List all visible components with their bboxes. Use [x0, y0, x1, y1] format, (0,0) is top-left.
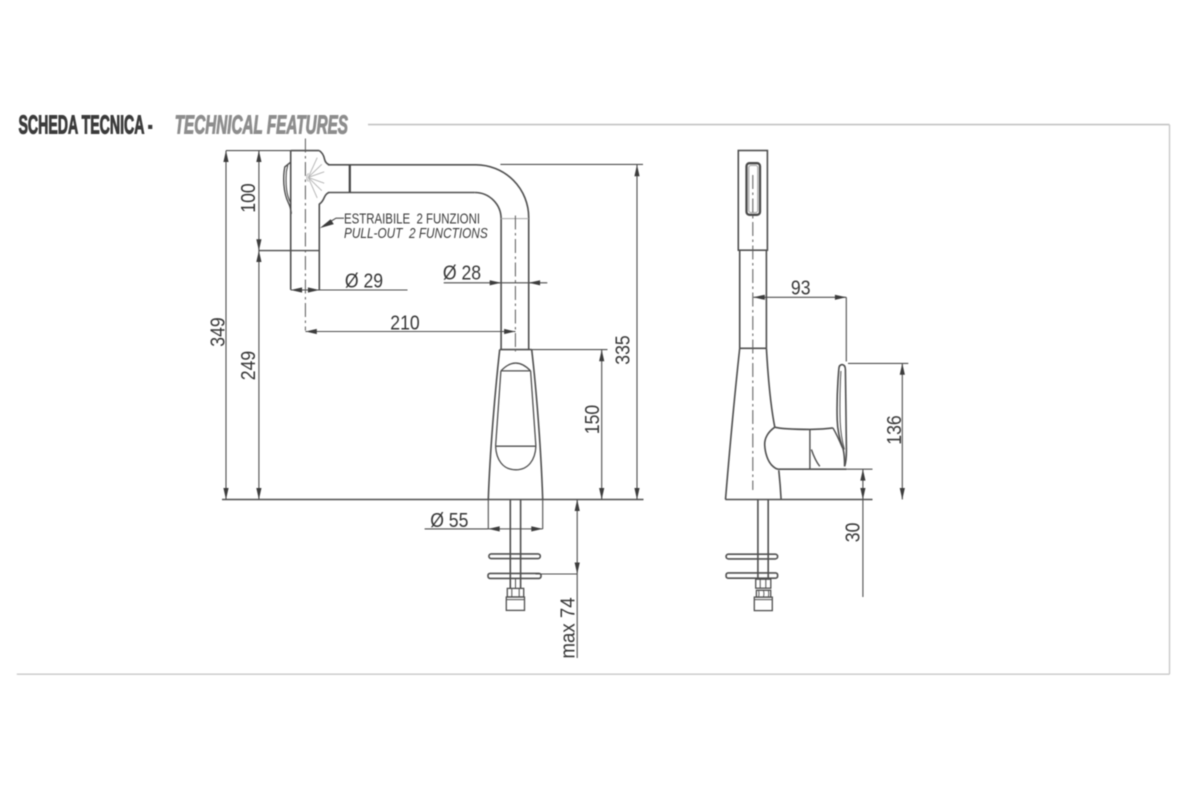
- svg-text:210: 210: [390, 312, 419, 335]
- spray head outline (left view): [291, 150, 320, 152]
- arrows 30: [860, 469, 865, 480]
- dim 30 line: [862, 469, 864, 597]
- dim 210 line: [305, 331, 515, 333]
- ext line head top to 349: [226, 150, 291, 152]
- handle base top edge: [775, 427, 810, 429]
- ext line body top to 150: [532, 349, 608, 351]
- hex nut front: [756, 579, 771, 588]
- svg-text:Ø 29: Ø 29: [345, 270, 383, 293]
- downtube tangent joint line: [501, 218, 529, 220]
- dim Ø28 line: [444, 282, 548, 284]
- ext line spout top to 335: [500, 163, 643, 165]
- svg-text:93: 93: [791, 277, 811, 300]
- handle wedge top edge: [810, 428, 833, 430]
- arrows 150: [599, 350, 604, 361]
- head centerline: [304, 139, 306, 331]
- lever bar inner line: [840, 371, 844, 450]
- dim max74 line: [576, 500, 578, 659]
- ext line handle bottom for 30: [847, 468, 873, 470]
- dim 150 line: [601, 350, 603, 500]
- arrows 349: [223, 151, 228, 162]
- head bottom fillet to spout: [319, 193, 329, 205]
- arrows 249: [256, 251, 261, 262]
- dim 349 line: [225, 151, 227, 500]
- dim 93 line: [753, 296, 846, 298]
- body left side: [488, 350, 499, 500]
- tube front right edge: [765, 250, 767, 348]
- spout top edge: [328, 164, 476, 166]
- handle base bottom edge: [779, 468, 847, 470]
- body front right side lower: [779, 470, 781, 499]
- max74 tick: [536, 573, 578, 575]
- callout leader arrow: [320, 219, 334, 228]
- spout joint ring: [349, 165, 351, 193]
- body window top chord: [501, 370, 531, 372]
- handle base left bulge: [765, 427, 779, 469]
- tube front left edge: [739, 250, 741, 348]
- body front left side: [726, 348, 740, 499]
- shank thread mid line: [515, 579, 517, 589]
- body window bowl: [496, 446, 536, 470]
- arrows 100: [256, 151, 261, 162]
- arrows 136: [900, 363, 905, 374]
- lever bar outline: [839, 365, 847, 467]
- body window right seam: [531, 371, 536, 446]
- washer 1 front: [726, 554, 778, 559]
- svg-text:349: 349: [207, 317, 230, 346]
- svg-text:PULL-OUT 2 FUNCTIONS: PULL-OUT 2 FUNCTIONS: [344, 225, 488, 241]
- arrows 335: [634, 165, 639, 176]
- handle wedge right diagonal: [833, 428, 843, 448]
- left view centerlines: [305, 139, 515, 352]
- dim Ø29 line: [291, 289, 408, 291]
- base nut block left view: [506, 597, 524, 610]
- base nut block front: [754, 597, 772, 611]
- dim 335 line: [636, 165, 638, 500]
- page border top rule: [368, 124, 1170, 126]
- shank tube front: [757, 500, 759, 580]
- svg-text:Ø 28: Ø 28: [443, 262, 481, 285]
- arrows Ø55: [488, 526, 499, 531]
- dim 136 line: [901, 363, 903, 499]
- spray head front outline: [738, 151, 767, 251]
- washer 2 left view: [488, 573, 541, 578]
- svg-text:136: 136: [884, 415, 907, 444]
- callout ESTRAIBILE 2 FUNZIONI: [344, 210, 488, 241]
- dim 100/249 line: [258, 151, 260, 500]
- ext line at 100 mark: [259, 250, 320, 252]
- svg-text:SCHEDA TECNICA -: SCHEDA TECNICA -: [19, 111, 153, 139]
- right view centerline: [752, 175, 754, 490]
- head top fillet to spout: [319, 151, 329, 165]
- svg-text:335: 335: [612, 335, 635, 364]
- ext line 93 right: [845, 297, 847, 361]
- elbow outer arc: [476, 165, 529, 218]
- body right side: [532, 350, 543, 500]
- body front right side upper: [766, 348, 774, 427]
- right view dimension arrows: [753, 295, 905, 500]
- handle wedge left diagonal: [811, 450, 819, 467]
- downtube right edge: [528, 218, 530, 350]
- ext lines base Ø55: [487, 500, 489, 530]
- hex nut left view: [507, 588, 523, 597]
- arrows 93: [753, 295, 764, 300]
- body window top arc: [501, 363, 531, 371]
- downtube left edge: [500, 219, 502, 350]
- left view dimension arrows: [223, 151, 639, 574]
- deck line left view: [222, 499, 644, 501]
- svg-text:Ø 55: Ø 55: [430, 510, 468, 533]
- arrows max74: [575, 500, 580, 512]
- deck line right view: [725, 499, 872, 501]
- arrows Ø28: [490, 280, 501, 285]
- svg-text:249: 249: [238, 351, 261, 380]
- elbow inner arc: [475, 193, 501, 219]
- ext line handle top to 136: [848, 362, 908, 364]
- svg-text:max 74: max 74: [557, 597, 580, 658]
- page border right rule: [1169, 125, 1171, 675]
- arrows Ø29: [291, 287, 302, 292]
- downtube centerline: [514, 216, 516, 352]
- spray face slot inner: [749, 166, 758, 213]
- spout bottom edge: [328, 192, 475, 194]
- handle base seam: [809, 429, 811, 469]
- page border bottom rule: [17, 673, 1170, 675]
- svg-text:30: 30: [842, 523, 865, 543]
- body window left seam: [496, 371, 501, 446]
- right view dimension labels: [791, 277, 906, 542]
- svg-text:TECHNICAL FEATURES: TECHNICAL FEATURES: [175, 112, 348, 140]
- washer 1 left view: [489, 554, 540, 559]
- washer 2 front: [726, 573, 778, 578]
- left view dimension labels: [207, 183, 635, 658]
- svg-text:100: 100: [238, 183, 261, 212]
- arrows 210: [305, 329, 316, 334]
- lever bar left edge: [837, 370, 845, 467]
- left view fan lines of spray transition: [307, 158, 324, 198]
- spray head clip: [284, 162, 292, 214]
- body top joint front: [740, 347, 767, 349]
- shank tube left: [509, 500, 511, 589]
- dim Ø55 label line: [425, 528, 489, 530]
- body top joint line: [500, 349, 532, 351]
- body window lower chord: [496, 445, 536, 447]
- svg-text:150: 150: [582, 405, 605, 434]
- callout leader line: [324, 218, 344, 225]
- collar nut front: [756, 590, 770, 597]
- spray face slot outer: [747, 163, 761, 215]
